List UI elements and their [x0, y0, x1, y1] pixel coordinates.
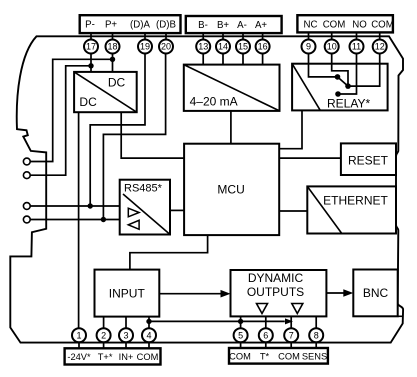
svg-text:5: 5 [238, 330, 243, 340]
svg-text:COM: COM [278, 351, 300, 361]
svg-text:RELAY*: RELAY* [327, 97, 370, 111]
svg-text:P-: P- [85, 20, 95, 31]
svg-text:11: 11 [352, 42, 361, 52]
svg-text:DYNAMIC: DYNAMIC [248, 271, 304, 285]
svg-text:COM: COM [137, 352, 159, 362]
svg-text:DC: DC [108, 76, 126, 90]
svg-text:(D)A: (D)A [130, 20, 150, 31]
svg-text:3: 3 [123, 330, 128, 340]
svg-text:B+: B+ [217, 20, 229, 31]
svg-text:18: 18 [107, 42, 117, 52]
svg-text:13: 13 [198, 42, 208, 52]
svg-text:20: 20 [161, 42, 171, 52]
svg-text:OUTPUTS: OUTPUTS [247, 285, 304, 299]
svg-text:COM: COM [371, 20, 394, 31]
svg-text:17: 17 [86, 42, 96, 52]
svg-text:ETHERNET: ETHERNET [323, 194, 388, 208]
svg-text:NO: NO [352, 20, 367, 31]
svg-text:4–20 mA: 4–20 mA [190, 95, 238, 109]
svg-text:-24V*: -24V* [67, 352, 91, 362]
svg-text:DC: DC [79, 95, 97, 109]
svg-text:8: 8 [314, 330, 319, 340]
svg-text:12: 12 [375, 42, 385, 52]
svg-text:A+: A+ [255, 20, 267, 31]
svg-text:SENS: SENS [302, 351, 327, 361]
svg-text:2: 2 [101, 330, 106, 340]
svg-text:6: 6 [263, 330, 268, 340]
svg-text:IN+: IN+ [119, 352, 134, 362]
svg-text:RS485*: RS485* [124, 183, 163, 195]
svg-text:INPUT: INPUT [109, 286, 146, 300]
svg-text:10: 10 [327, 42, 337, 52]
svg-text:19: 19 [140, 42, 150, 52]
svg-text:7: 7 [289, 330, 294, 340]
svg-text:BNC: BNC [363, 286, 389, 300]
svg-text:T+*: T+* [98, 352, 113, 362]
svg-text:4: 4 [146, 330, 151, 340]
svg-text:MCU: MCU [217, 182, 244, 196]
svg-text:A-: A- [237, 20, 247, 31]
svg-text:COM: COM [323, 20, 346, 31]
svg-text:16: 16 [258, 42, 268, 52]
svg-text:9: 9 [306, 42, 311, 52]
svg-text:B-: B- [198, 20, 208, 31]
svg-text:P+: P+ [105, 20, 117, 31]
svg-text:COM: COM [229, 351, 251, 361]
svg-text:15: 15 [238, 42, 248, 52]
svg-text:14: 14 [218, 42, 228, 52]
svg-text:RESET: RESET [348, 153, 389, 167]
svg-text:NC: NC [304, 20, 318, 31]
svg-text:1: 1 [76, 330, 81, 340]
svg-text:T*: T* [260, 351, 270, 361]
svg-text:(D)B: (D)B [156, 20, 176, 31]
